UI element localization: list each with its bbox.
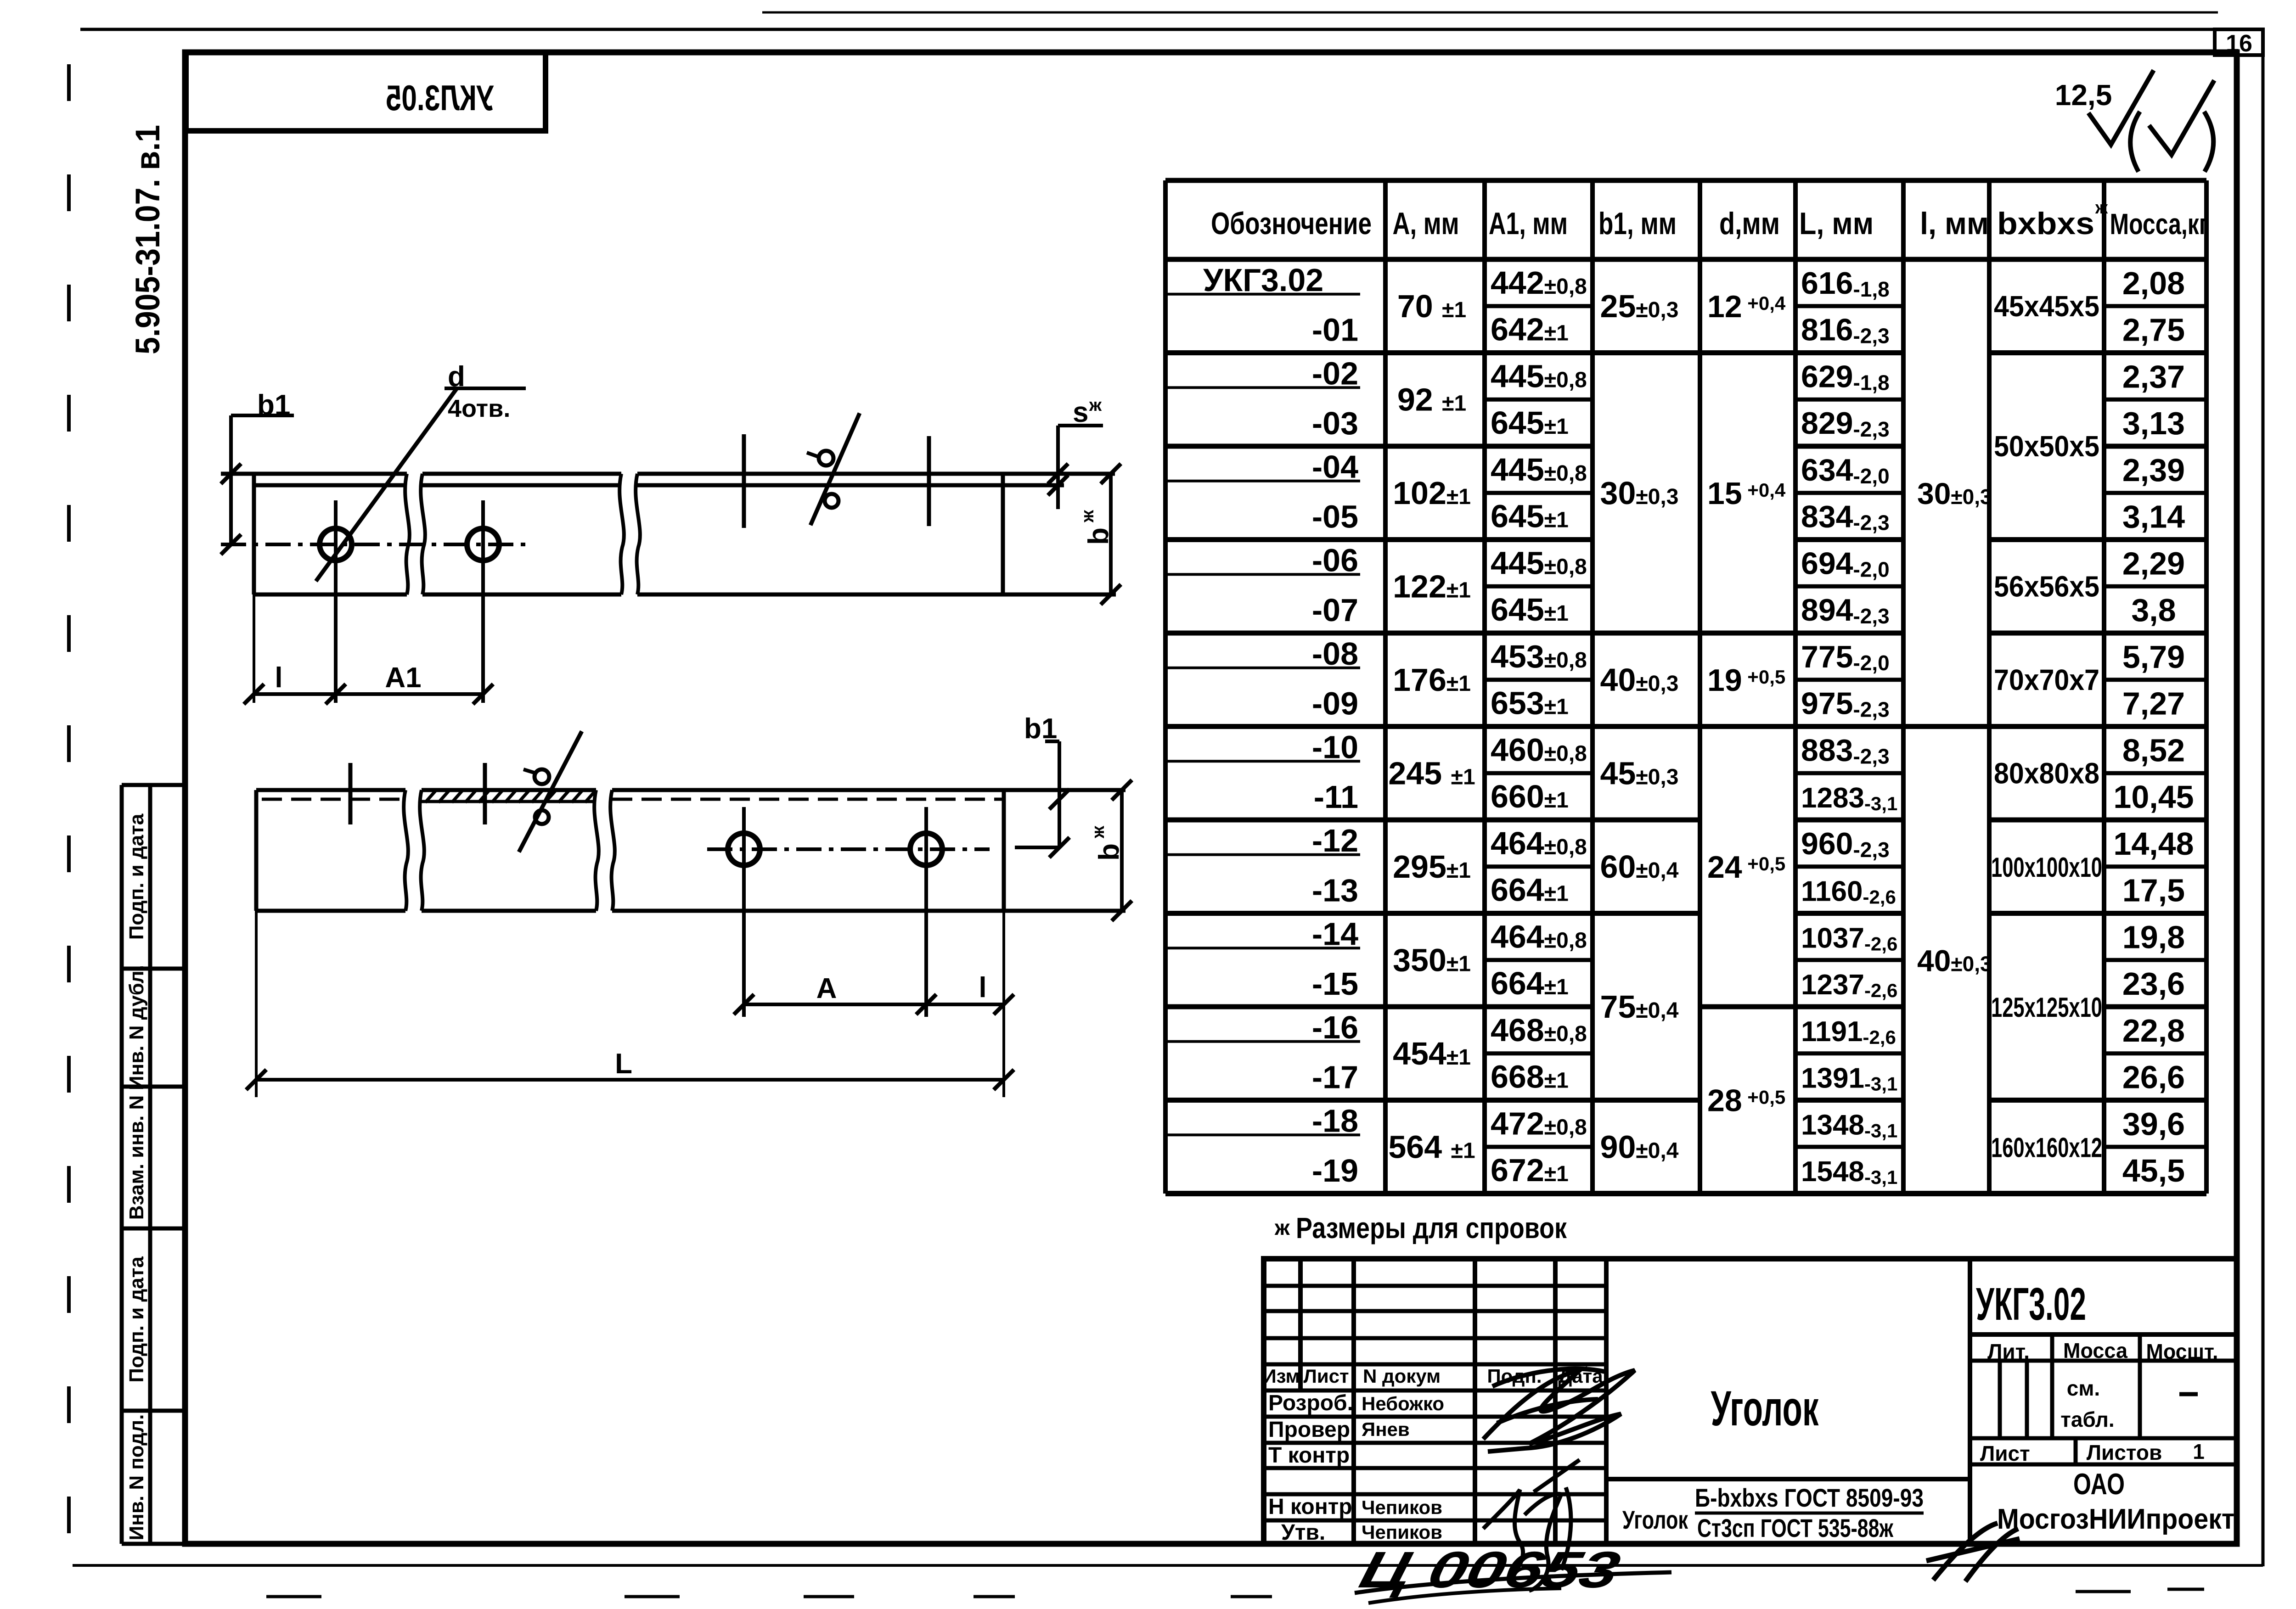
lit/massa/masht header — [1970, 1359, 2237, 1363]
svg-text:7,27: 7,27 — [2122, 686, 2185, 722]
title block — [1264, 1259, 2237, 1544]
svg-text:Чепиков: Чепиков — [1362, 1521, 1442, 1543]
svg-text:26,6: 26,6 — [2122, 1060, 2185, 1095]
mirrored designation box — [186, 52, 546, 131]
svg-text:b: b — [1093, 843, 1125, 861]
svg-text:УКЛ3.05: УКЛ3.05 — [386, 78, 494, 118]
svg-text:5,79: 5,79 — [2122, 639, 2185, 675]
svg-text:23,6: 23,6 — [2122, 966, 2185, 1002]
svg-text:2,37: 2,37 — [2122, 359, 2185, 394]
svg-text:Утв.: Утв. — [1281, 1520, 1325, 1545]
svg-text:1: 1 — [2193, 1440, 2205, 1463]
masht cell dash — [2179, 1392, 2198, 1396]
view2 hole 2 — [910, 833, 942, 865]
svg-text:ж: ж — [1274, 1216, 1290, 1239]
outer sheet border right — [2262, 29, 2265, 1566]
table row line (designation underline) row 13 — [1165, 853, 1360, 856]
view1 weld symbol — [810, 413, 860, 525]
view2 top edge line — [256, 788, 405, 792]
svg-text:bxbxs: bxbxs — [1997, 206, 2094, 241]
svg-text:Н контр: Н контр — [1268, 1495, 1352, 1519]
svg-text:-07: -07 — [1312, 592, 1358, 628]
view2 hole 1 — [728, 833, 760, 865]
table row line (designation underline) row 15 — [1165, 947, 1360, 949]
view1 top edge line — [221, 472, 407, 476]
svg-text:l: l — [275, 662, 282, 694]
svg-text:10,45: 10,45 — [2113, 779, 2194, 815]
svg-text:Уголок: Уголок — [1711, 1380, 1819, 1436]
document name cell — [1606, 1477, 1970, 1481]
svg-text:-10: -10 — [1312, 729, 1358, 765]
svg-text:Уголок: Уголок — [1622, 1505, 1688, 1534]
table row line 2 — [1165, 350, 1385, 355]
view2 right end edge — [1002, 790, 1006, 911]
svg-text:Янев: Янев — [1362, 1418, 1410, 1440]
outer sheet border bottom — [73, 1564, 2263, 1567]
svg-text:-06: -06 — [1312, 542, 1358, 578]
svg-text:ж: ж — [2095, 198, 2108, 218]
svg-text:-11: -11 — [1314, 779, 1358, 815]
svg-text:-03: -03 — [1312, 405, 1358, 441]
svg-text:ж: ж — [1089, 825, 1108, 839]
signature scribble upper — [1483, 1370, 1635, 1452]
view2 dimension b — [1120, 790, 1124, 911]
table row line 6 — [1165, 537, 1385, 542]
svg-text:Размеры для спровок: Размеры для спровок — [1296, 1211, 1567, 1245]
svg-text:50x50x5: 50x50x5 — [1994, 430, 2099, 463]
view1 break lines — [405, 474, 410, 594]
svg-text:см.: см. — [2067, 1376, 2100, 1400]
svg-text:Подп. и дата: Подп. и дата — [125, 813, 148, 940]
stamp label Подп. и дата — [125, 813, 148, 940]
table row line 14 — [1165, 911, 1385, 916]
svg-text:-13: -13 — [1312, 873, 1358, 908]
view1 dimension l — [253, 594, 255, 703]
signature scribble lower — [1483, 1460, 1580, 1591]
svg-text:56x56x5: 56x56x5 — [1994, 570, 2099, 603]
svg-text:s: s — [1073, 397, 1088, 428]
svg-text:-16: -16 — [1312, 1009, 1358, 1045]
svg-text:4отв.: 4отв. — [448, 395, 510, 422]
sheet number box 16 — [2215, 29, 2263, 55]
svg-text:-17: -17 — [1312, 1060, 1358, 1095]
svg-text:МосгозНИИпроект: МосгозНИИпроект — [1997, 1503, 2234, 1535]
svg-text:b1, мм: b1, мм — [1598, 206, 1677, 241]
table row line (designation underline) row 17 — [1165, 1040, 1360, 1043]
svg-text:табл.: табл. — [2060, 1407, 2114, 1431]
svg-text:Лист: Лист — [1303, 1365, 1349, 1387]
svg-text:Обозночение: Обозночение — [1211, 206, 1372, 241]
svg-text:45x45x5: 45x45x5 — [1994, 290, 2099, 323]
view2 hidden edge dashed line — [262, 798, 405, 801]
view2 weld position ticks — [349, 763, 353, 824]
svg-text:Листов: Листов — [2087, 1441, 2162, 1464]
view2 dimension A — [744, 1003, 1004, 1006]
svg-text:12,5: 12,5 — [2055, 78, 2112, 112]
svg-text:Т контр: Т контр — [1268, 1443, 1350, 1468]
svg-text:3,8: 3,8 — [2131, 592, 2176, 628]
table verticals — [1163, 180, 1168, 1194]
svg-text:УКГ3.02: УКГ3.02 — [1203, 262, 1323, 298]
view2 break lines — [404, 790, 408, 911]
designation cell УКГ3.02 — [1970, 1332, 2237, 1337]
svg-text:Инв. N дубл.: Инв. N дубл. — [125, 965, 148, 1090]
svg-text:-04: -04 — [1312, 449, 1358, 485]
svg-text:Подп. и дата: Подп. и дата — [125, 1256, 148, 1383]
svg-text:A1: A1 — [385, 662, 421, 694]
svg-text:Мосса,кг: Мосса,кг — [2110, 207, 2209, 241]
svg-text:2,29: 2,29 — [2122, 545, 2185, 581]
svg-text:N докум: N докум — [1363, 1365, 1441, 1387]
view1 dimension b — [1109, 474, 1113, 594]
table row line (designation underline) row 19 — [1165, 1133, 1360, 1136]
svg-text:3,14: 3,14 — [2122, 499, 2185, 535]
view2 weld seam hatched band — [422, 800, 596, 803]
svg-text:80x80x8: 80x80x8 — [1994, 757, 2099, 790]
svg-text:5.905-31.07. в.1: 5.905-31.07. в.1 — [129, 125, 167, 354]
svg-text:2,75: 2,75 — [2122, 312, 2185, 348]
view2 bottom edge line — [256, 909, 405, 913]
outer sheet border left (dashed) — [67, 64, 71, 1538]
svg-text:Мосшт.: Мосшт. — [2146, 1340, 2218, 1363]
svg-text:-08: -08 — [1312, 636, 1358, 672]
svg-text:2,08: 2,08 — [2122, 265, 2185, 301]
svg-text:-02: -02 — [1312, 355, 1358, 391]
table row line 16 — [1165, 1004, 1385, 1009]
table row line (designation underline) row 5 — [1165, 480, 1360, 482]
svg-text:Лист: Лист — [1980, 1441, 2030, 1465]
outer sheet border top — [80, 28, 2263, 31]
svg-text:Чепиков: Чепиков — [1362, 1497, 1442, 1518]
svg-text:-05: -05 — [1312, 499, 1358, 535]
svg-text:Изм: Изм — [1262, 1365, 1300, 1387]
svg-text:-09: -09 — [1312, 686, 1358, 722]
table row line (designation underline) row 9 — [1165, 667, 1360, 669]
table row line (designation underline) row 7 — [1165, 573, 1360, 576]
stamp label Инв. N дубл. — [125, 965, 148, 1090]
view2 left end edge — [254, 790, 259, 911]
svg-text:Мосса: Мосса — [2063, 1339, 2127, 1362]
svg-text:-01: -01 — [1312, 312, 1358, 348]
svg-text:-19: -19 — [1312, 1153, 1358, 1189]
table row line 18 — [1165, 1098, 1385, 1103]
svg-text:A1, мм: A1, мм — [1489, 206, 1568, 241]
svg-text:Взам. инв. N: Взам. инв. N — [125, 1095, 148, 1220]
svg-text:Розроб.: Розроб. — [1268, 1391, 1353, 1415]
stamp label Инв. N подл. — [125, 1414, 148, 1541]
svg-text:Провер.: Провер. — [1268, 1418, 1356, 1442]
view1 second edge line — [254, 483, 407, 488]
svg-text:l: l — [979, 972, 986, 1004]
table row line 10 — [1165, 724, 1385, 729]
stamp label Подп. и дата — [125, 1256, 148, 1383]
view1 weld position ticks — [742, 434, 746, 528]
stamp label Взам. инв. N — [125, 1095, 148, 1220]
svg-text:-18: -18 — [1312, 1103, 1358, 1138]
svg-text:160x160x12: 160x160x12 — [1991, 1132, 2102, 1163]
view1 right end edge — [1001, 474, 1005, 594]
view1 hole 2 — [467, 528, 499, 561]
svg-text:УКГ3.02: УКГ3.02 — [1976, 1278, 2086, 1330]
svg-text:8,52: 8,52 — [2122, 732, 2185, 768]
svg-text:-14: -14 — [1312, 916, 1358, 952]
mirrored text УКЛ3.05 — [386, 78, 494, 118]
table top/header/bottom lines — [1165, 178, 2206, 183]
svg-text:45,5: 45,5 — [2122, 1153, 2185, 1189]
svg-text:Инв. N подл.: Инв. N подл. — [125, 1414, 148, 1541]
svg-text:Лит.: Лит. — [1987, 1340, 2030, 1363]
table row line 12 — [1165, 818, 1385, 823]
svg-text:L, мм: L, мм — [1799, 206, 1874, 241]
svg-text:-15: -15 — [1312, 966, 1358, 1002]
svg-text:2,39: 2,39 — [2122, 452, 2185, 488]
view1 bottom edge line — [254, 593, 407, 597]
view1 hole 1 — [320, 528, 352, 561]
svg-text:14,48: 14,48 — [2113, 826, 2194, 862]
svg-text:39,6: 39,6 — [2122, 1106, 2185, 1142]
svg-text:ОАО: ОАО — [2073, 1467, 2125, 1501]
view2 hole centerline horizontal — [707, 847, 990, 851]
svg-text:L: L — [615, 1048, 632, 1080]
svg-text:Ст3сп ГОСТ 535-88ж: Ст3сп ГОСТ 535-88ж — [1697, 1514, 1894, 1542]
list row — [1970, 1436, 2237, 1441]
svg-text:ж: ж — [1089, 396, 1102, 415]
title block right part — [1968, 1259, 1972, 1544]
lit sub-boxes — [1998, 1361, 2002, 1438]
svg-text:d,мм: d,мм — [1719, 206, 1780, 241]
svg-text:ж: ж — [1078, 510, 1097, 523]
svg-text:22,8: 22,8 — [2122, 1013, 2185, 1048]
svg-text:b: b — [1083, 527, 1114, 545]
view1 left end edge — [252, 474, 256, 594]
svg-text:100x100x10: 100x100x10 — [1991, 852, 2102, 883]
vertical document number — [129, 125, 167, 354]
svg-text:Небожко: Небожко — [1362, 1393, 1444, 1414]
view2 dimension L — [255, 911, 258, 1097]
handwritten inventory number — [1354, 1542, 1626, 1599]
view2 weld symbol — [519, 731, 582, 852]
svg-text:-12: -12 — [1312, 823, 1358, 858]
svg-text:Б-bxbxs ГОСТ 8509-93: Б-bxbxs ГОСТ 8509-93 — [1695, 1483, 1924, 1512]
svg-text:A: A — [816, 973, 837, 1004]
table row line (designation underline) row 1 — [1165, 293, 1360, 296]
svg-text:l, мм: l, мм — [1920, 206, 1989, 241]
table row line (designation underline) row 3 — [1165, 386, 1360, 389]
title block left part grid — [1298, 1259, 1303, 1390]
table row line (designation underline) row 11 — [1165, 760, 1360, 762]
left margin stamp boxes — [120, 785, 124, 1544]
svg-text:125x125x10: 125x125x10 — [1991, 992, 2102, 1023]
view1 hole centerline horizontal — [221, 543, 530, 546]
table row line 8 — [1165, 631, 1385, 636]
svg-text:3,13: 3,13 — [2122, 405, 2185, 441]
handwritten mark right — [1926, 1523, 2020, 1581]
table row line 4 — [1165, 444, 1385, 449]
svg-text:A, мм: A, мм — [1393, 206, 1459, 241]
svg-text:19,8: 19,8 — [2122, 919, 2185, 955]
svg-text:17,5: 17,5 — [2122, 873, 2185, 908]
svg-text:70x70x7: 70x70x7 — [1994, 663, 2099, 696]
